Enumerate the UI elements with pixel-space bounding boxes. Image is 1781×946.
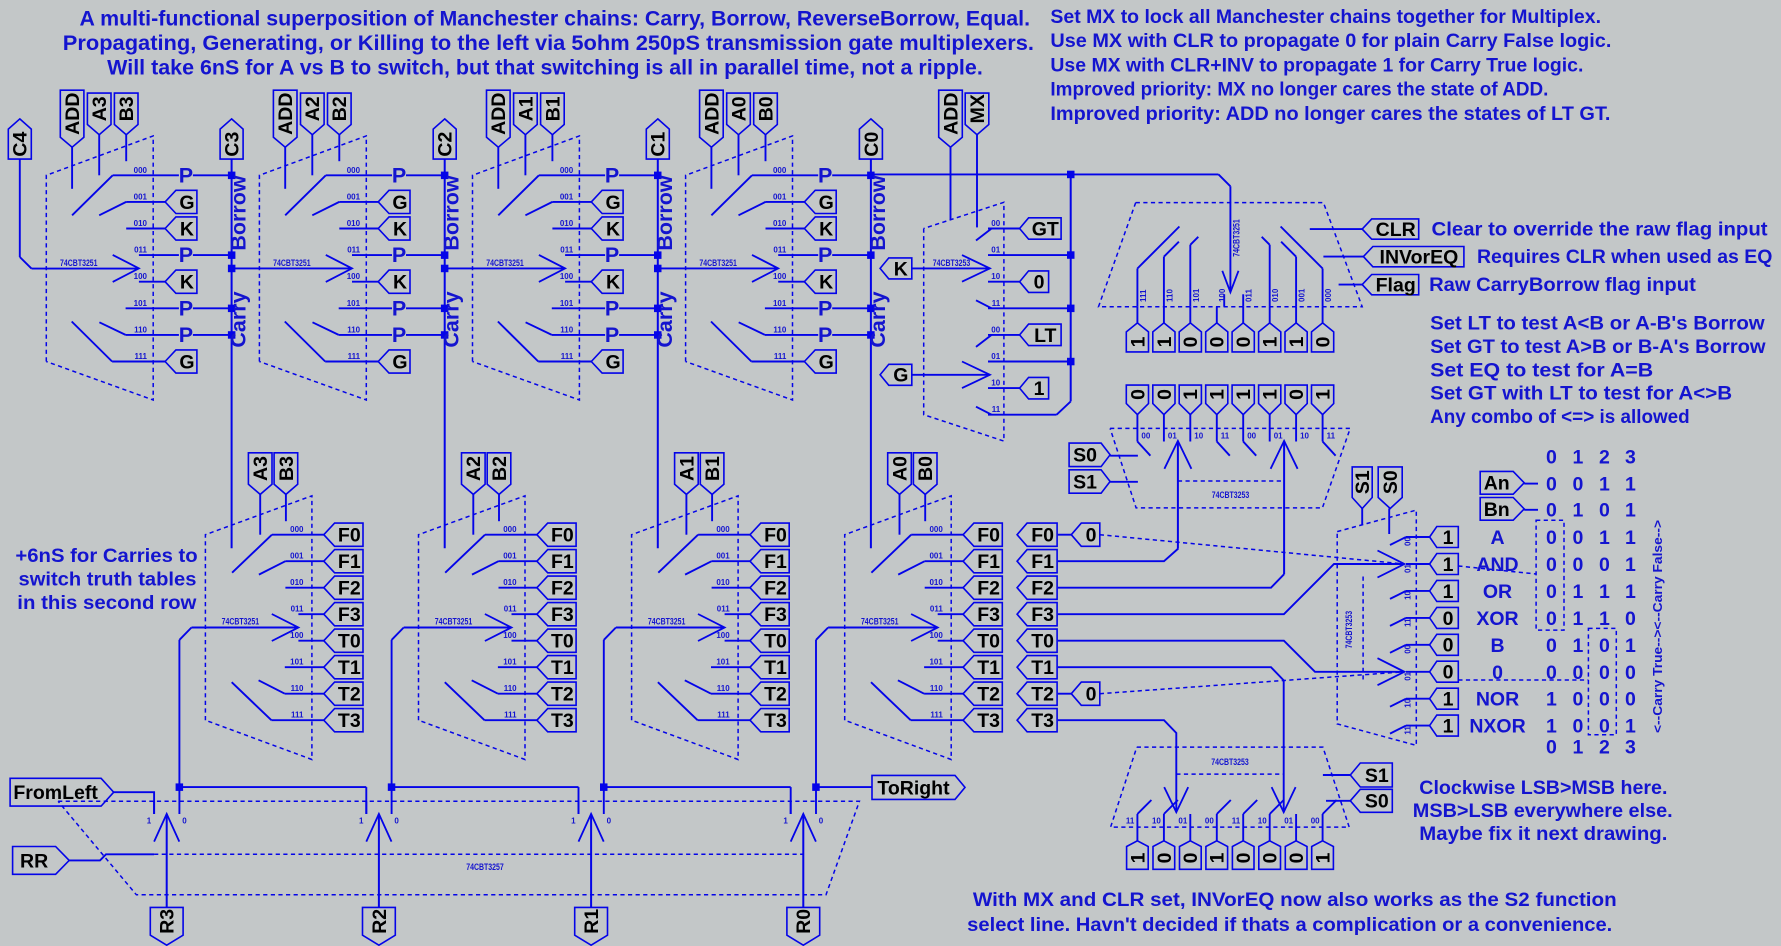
port T0: [324, 629, 363, 652]
node P knockout: [605, 300, 619, 317]
svg-text:F3: F3: [977, 604, 1000, 626]
port T3: [537, 709, 576, 732]
svg-text:select line. Havn't decided if: select line. Havn't decided if thats a c…: [967, 914, 1612, 936]
svg-text:1: 1: [1546, 689, 1557, 711]
port S1 br: [1350, 763, 1392, 787]
svg-text:Set EQ to test for A=B: Set EQ to test for A=B: [1430, 359, 1653, 381]
wire channel 011: [938, 613, 963, 615]
wire channel 10 stub: [1269, 814, 1271, 841]
svg-text:74CBT3253: 74CBT3253: [1212, 490, 1250, 500]
svg-text:0: 0: [1546, 474, 1557, 496]
svg-text:1: 1: [147, 817, 152, 826]
junction bus 1: [388, 783, 396, 791]
node P knockout: [179, 167, 193, 184]
wire B1 select: [551, 135, 553, 162]
svg-text:110: 110: [560, 325, 573, 334]
wire select riser: [603, 640, 605, 787]
blade ch001: [99, 202, 126, 215]
svg-text:With MX and CLR set, INVorEQ n: With MX and CLR set, INVorEQ now also wo…: [973, 889, 1617, 911]
junction bus 3: [812, 783, 820, 791]
wire select from bus: [445, 267, 565, 269]
svg-text:A0: A0: [728, 96, 750, 121]
svg-text:100: 100: [347, 272, 361, 281]
svg-text:F2: F2: [764, 578, 787, 600]
svg-text:K: K: [819, 272, 833, 294]
wire A3 select: [259, 494, 261, 534]
mux U6 74CBT3251 body: [1099, 203, 1363, 307]
svg-text:100: 100: [1218, 288, 1227, 302]
blade ch11b: [976, 407, 992, 415]
wire channel 010: [126, 228, 165, 230]
svg-text:0: 0: [1154, 852, 1176, 863]
node P knockout: [392, 326, 406, 343]
svg-text:K: K: [606, 272, 620, 294]
wire channel 110: [924, 693, 963, 695]
svg-text:0: 0: [1180, 336, 1202, 347]
wire C0 row000 extension: [871, 173, 1219, 175]
svg-text:switch truth tables: switch truth tables: [19, 569, 197, 591]
port T2 feed: [1017, 682, 1057, 705]
port G channel 001: [378, 190, 410, 213]
wire F3 run: [1058, 564, 1405, 614]
wire B2 select: [498, 494, 500, 521]
port G feed: [880, 364, 912, 385]
wire channel 100: [352, 281, 378, 283]
svg-text:Set GT with LT to test for A<>: Set GT with LT to test for A<>B: [1430, 383, 1732, 405]
wire to flag 0: [1242, 307, 1244, 323]
svg-text:101: 101: [290, 658, 304, 667]
wire to flag 1: [1163, 307, 1165, 323]
node P knockout: [179, 247, 193, 264]
wire channel 001: [126, 201, 165, 203]
wire RR select dashed: [154, 853, 803, 855]
svg-text:F2: F2: [551, 578, 574, 600]
svg-text:S0: S0: [1365, 791, 1389, 813]
svg-text:74CBT3251: 74CBT3251: [222, 616, 260, 626]
wire ch1 stub: [790, 801, 792, 814]
mux U11 74CBT3251 body: [845, 496, 952, 760]
blade ch111: [445, 682, 485, 720]
wire select riser: [391, 640, 393, 787]
svg-text:Improved priority: ADD no long: Improved priority: ADD no longer cares t…: [1050, 103, 1610, 125]
svg-text:Carry: Carry: [227, 291, 251, 347]
junction P 000: [441, 172, 449, 180]
wire channel 100: [565, 281, 591, 283]
svg-text:Will take 6nS for A vs B to sw: Will take 6nS for A vs B to switch, but …: [107, 57, 983, 80]
port S0 top: [1378, 467, 1402, 509]
wire row 10: [1406, 590, 1430, 592]
port A3 second row: [248, 453, 272, 495]
svg-text:101: 101: [716, 658, 730, 667]
blade row 11: [1390, 726, 1406, 734]
port A2 second row: [462, 453, 486, 495]
port out value 0: [1285, 841, 1307, 870]
wire C4 down: [19, 159, 21, 257]
svg-text:0: 0: [1572, 474, 1583, 496]
function select mux: [1337, 467, 1458, 746]
junction P 101: [441, 305, 449, 313]
svg-text:ToRight: ToRight: [877, 777, 950, 799]
port F3: [537, 603, 576, 626]
wire An: [1524, 483, 1538, 485]
svg-text:in this second row: in this second row: [17, 592, 197, 614]
mux U4 74CBT3251 body: [686, 136, 793, 400]
wire S1 br: [1323, 774, 1350, 776]
svg-text:0: 0: [1546, 554, 1557, 576]
select chevron: [113, 255, 139, 282]
svg-text:01: 01: [1168, 432, 1177, 441]
wire S0 select: [1388, 509, 1390, 535]
port flag value 1: [1126, 323, 1148, 352]
svg-text:110: 110: [773, 325, 786, 334]
wire channel 010: [552, 228, 591, 230]
svg-text:0: 0: [819, 817, 824, 826]
svg-text:0: 0: [1546, 608, 1557, 630]
junction P 011: [228, 251, 236, 259]
wire bus C3: [231, 159, 233, 548]
svg-text:111: 111: [504, 711, 517, 720]
bottom-right output mux: [1111, 747, 1673, 869]
svg-text:101: 101: [929, 658, 943, 667]
port K channel 010: [165, 217, 197, 240]
mux U13 74CBT3253 body: [1111, 747, 1350, 827]
wire R2 shaft: [378, 814, 380, 908]
node P knockout: [392, 300, 406, 317]
svg-text:T0: T0: [338, 631, 361, 653]
node P knockout: [179, 300, 193, 317]
port select value 1: [1179, 385, 1201, 415]
svg-text:P: P: [605, 243, 619, 267]
wire ch0 stub: [815, 787, 817, 814]
junction P 011: [867, 251, 875, 259]
wire common B shaft: [1283, 441, 1285, 574]
svg-text:FromLeft: FromLeft: [13, 782, 98, 804]
blade ch110: [685, 680, 711, 693]
port F1: [324, 550, 363, 573]
blade 00: [1323, 800, 1337, 814]
port T2: [324, 682, 363, 705]
port out value 0: [1232, 841, 1254, 870]
blade 10: [1270, 800, 1284, 814]
wire ch1 stub: [153, 801, 155, 814]
svg-text:1: 1: [1443, 581, 1454, 603]
wire value 1 down: [1242, 415, 1244, 442]
svg-text:010: 010: [560, 219, 574, 228]
svg-text:0: 0: [607, 817, 612, 826]
wire channel 100: [139, 281, 165, 283]
wire channel 111: [538, 361, 591, 363]
node P knockout: [392, 247, 406, 264]
port F1: [537, 550, 576, 573]
svg-text:000: 000: [716, 525, 730, 534]
svg-text:0: 0: [182, 817, 187, 826]
junction P 110: [228, 331, 236, 339]
wire bus drop: [365, 787, 367, 814]
svg-text:ADD: ADD: [701, 93, 723, 135]
wire bus segment: [604, 786, 791, 788]
svg-text:Propagating, Generating, or Ki: Propagating, Generating, or Killing to t…: [63, 32, 1034, 55]
wire F1 run: [1058, 549, 1178, 562]
svg-text:F0: F0: [338, 525, 361, 547]
wire select from bus: [232, 267, 352, 269]
select-value mux S0/S1: [1069, 385, 1350, 574]
port value 0: [1430, 607, 1459, 628]
svg-text:1: 1: [1625, 527, 1636, 549]
port S0 br: [1350, 789, 1392, 812]
svg-text:11: 11: [1232, 816, 1241, 825]
port flag value 0: [1232, 323, 1254, 352]
svg-text:110: 110: [291, 684, 304, 693]
svg-text:T2: T2: [977, 684, 1000, 706]
svg-text:F1: F1: [764, 551, 787, 573]
wire G to chevron: [912, 374, 990, 376]
svg-text:00: 00: [1247, 432, 1256, 441]
port R2: [363, 907, 396, 945]
svg-text:S0: S0: [1380, 470, 1402, 494]
svg-text:1: 1: [1233, 389, 1255, 400]
svg-text:74CBT3253: 74CBT3253: [933, 258, 971, 268]
svg-text:Bn: Bn: [1484, 499, 1510, 521]
cell 4 top row: [654, 90, 890, 548]
arrowhead R1: [579, 814, 604, 842]
port An: [1480, 471, 1524, 494]
blade ch000: [232, 535, 272, 573]
wire channel 10: [988, 387, 1020, 389]
svg-text:1: 1: [1207, 852, 1229, 863]
port ADD U5: [939, 90, 963, 147]
svg-text:0: 0: [1233, 336, 1255, 347]
wire B0 select: [765, 135, 767, 162]
svg-text:001: 001: [1298, 288, 1307, 302]
wire value 1 down: [1216, 415, 1218, 442]
mux U14 74CBT3257 body: [58, 801, 859, 895]
svg-text:T1: T1: [338, 657, 361, 679]
svg-text:000: 000: [1324, 288, 1333, 302]
junction P 101: [228, 305, 236, 313]
select chevron: [272, 614, 299, 641]
svg-text:T2: T2: [338, 684, 361, 706]
blade ch001: [525, 202, 552, 215]
wire select riser: [178, 640, 180, 787]
svg-text:100: 100: [560, 272, 574, 281]
svg-text:0: 0: [1546, 447, 1557, 469]
wire RR: [69, 854, 154, 860]
wire channel 101: [498, 666, 537, 668]
port 1: [1020, 377, 1049, 399]
wire channel 010 stub: [1269, 245, 1271, 307]
blade ch001: [259, 561, 286, 574]
port R3: [150, 907, 183, 945]
select chevron A: [962, 255, 990, 282]
mux U5 74CBT3253 body: [924, 202, 1004, 441]
port B0 second row: [913, 453, 937, 495]
wire ADD select: [497, 147, 499, 189]
junction P 000: [228, 172, 236, 180]
svg-text:0: 0: [1599, 500, 1610, 522]
svg-text:B2: B2: [489, 456, 511, 481]
node P knockout: [392, 167, 406, 184]
port K channel 100: [804, 270, 836, 293]
junction select tap: [228, 265, 236, 273]
top-right flag source mux: [871, 174, 1773, 352]
svg-text:0: 0: [1546, 500, 1557, 522]
blade 11: [1323, 442, 1336, 456]
port select value 1: [1206, 385, 1228, 415]
port ToRight: [872, 775, 965, 799]
blade ch00b: [976, 335, 992, 347]
wire ADD select: [710, 147, 712, 189]
svg-text:010: 010: [1271, 288, 1280, 302]
junction P 101: [654, 305, 662, 313]
svg-text:A0: A0: [889, 456, 911, 481]
wire GT/LT bus: [1070, 174, 1072, 401]
wire channel 110 to bus: [552, 334, 658, 336]
blade ch110: [99, 322, 125, 335]
blade 001: [1281, 242, 1296, 257]
svg-text:F3: F3: [764, 604, 787, 626]
port K channel 100: [378, 270, 410, 293]
svg-text:T2: T2: [764, 684, 787, 706]
svg-text:T2: T2: [551, 684, 574, 706]
wire F0 to 0: [1058, 534, 1071, 536]
junction P 011: [654, 251, 662, 259]
blade 00: [1243, 442, 1256, 456]
mux U8 74CBT3251 body: [205, 496, 312, 760]
svg-text:AND: AND: [1476, 554, 1518, 576]
svg-text:00: 00: [1141, 432, 1150, 441]
wire channel 01 to GT/LT bus: [988, 361, 1071, 363]
port flag value 1: [1153, 323, 1175, 352]
port select value 0: [1126, 385, 1148, 415]
port out value 0: [1180, 841, 1202, 870]
svg-text:C0: C0: [861, 131, 883, 156]
svg-text:XOR: XOR: [1476, 608, 1518, 630]
svg-text:101: 101: [560, 299, 574, 308]
svg-text:1: 1: [1154, 336, 1176, 347]
node P knockout: [818, 167, 832, 184]
svg-text:A1: A1: [515, 96, 537, 121]
port T1: [750, 656, 789, 679]
arrowhead R0: [791, 814, 816, 842]
port F1: [750, 550, 789, 573]
svg-text:1: 1: [1572, 581, 1583, 603]
wire T2 to 0: [1058, 693, 1071, 695]
wire to flag 0: [1189, 307, 1191, 323]
svg-text:1: 1: [1443, 527, 1454, 549]
svg-text:111: 111: [774, 352, 787, 361]
blade row 10: [1390, 699, 1406, 707]
svg-text:Carry: Carry: [866, 291, 890, 347]
wire ch1 stub: [578, 801, 580, 814]
wire B0 select: [924, 494, 926, 521]
svg-text:0: 0: [1443, 608, 1454, 630]
wire to flag 0: [1322, 307, 1324, 323]
svg-text:Borrow: Borrow: [866, 175, 890, 251]
svg-text:F1: F1: [977, 551, 1000, 573]
junction bus 2: [600, 783, 608, 791]
svg-text:T3: T3: [764, 710, 787, 732]
wire select jog: [816, 628, 828, 640]
wire channel 000: [485, 534, 537, 536]
port C0: [859, 119, 882, 159]
wire channel 111: [325, 361, 378, 363]
svg-text:F0: F0: [764, 525, 787, 547]
wire channel 111: [751, 361, 804, 363]
wire FromLeft: [114, 792, 154, 814]
blade ch110: [526, 322, 552, 335]
svg-text:0: 0: [1599, 689, 1610, 711]
wire channel 110: [285, 693, 324, 695]
port T3: [750, 709, 789, 732]
port value 1: [1430, 688, 1459, 709]
port select value 1: [1312, 385, 1334, 415]
port K channel 100: [591, 270, 623, 293]
port C3: [220, 119, 243, 159]
port flag value 0: [1179, 323, 1201, 352]
wire value 0 down: [1295, 415, 1297, 442]
svg-text:1: 1: [1034, 378, 1045, 400]
svg-text:G: G: [179, 351, 194, 373]
svg-text:1: 1: [1313, 389, 1335, 400]
svg-text:S0: S0: [1073, 445, 1097, 467]
svg-text:A2: A2: [463, 456, 485, 481]
wire bus to ToRight: [816, 786, 872, 788]
wire R0 shaft: [802, 814, 804, 908]
svg-text:<--Carry True--><--Carry False: <--Carry True--><--Carry False-->: [1650, 520, 1665, 733]
port out value 0: [1259, 841, 1281, 870]
wire channel 10: [988, 281, 1020, 283]
svg-text:1: 1: [1625, 474, 1636, 496]
svg-text:S1: S1: [1365, 765, 1389, 787]
svg-text:T0: T0: [551, 631, 574, 653]
svg-text:000: 000: [929, 525, 943, 534]
svg-text:1: 1: [1443, 554, 1454, 576]
wire bus C2: [444, 159, 446, 548]
port T0: [750, 629, 789, 652]
wire channel 100: [778, 281, 804, 283]
svg-text:P: P: [179, 296, 193, 320]
svg-text:G: G: [179, 192, 194, 214]
svg-text:74CBT3253: 74CBT3253: [1211, 757, 1249, 767]
blade 000: [1281, 227, 1323, 269]
wire channel 011 to bus: [352, 254, 445, 256]
svg-text:110: 110: [717, 684, 730, 693]
wire select horiz: [828, 627, 938, 629]
svg-text:B3: B3: [116, 96, 138, 121]
port select value 1: [1232, 385, 1254, 415]
svg-text:3: 3: [1625, 737, 1636, 759]
port value 0: [1430, 661, 1459, 682]
svg-text:1: 1: [1625, 716, 1636, 738]
svg-text:1: 1: [783, 817, 788, 826]
port A1: [514, 93, 538, 135]
svg-text:01: 01: [1274, 432, 1283, 441]
wire channel 100 stub: [1223, 294, 1225, 306]
svg-text:0: 0: [1034, 272, 1045, 294]
svg-text:0: 0: [1572, 527, 1583, 549]
svg-text:11: 11: [1221, 432, 1230, 441]
svg-text:C4: C4: [10, 131, 32, 156]
svg-text:11: 11: [1327, 432, 1336, 441]
svg-text:010: 010: [290, 578, 304, 587]
svg-text:011: 011: [560, 246, 573, 255]
mux U9 74CBT3251 body: [419, 496, 526, 760]
wire channel 011: [725, 613, 750, 615]
wire INVorEQ: [1323, 256, 1363, 258]
blade ch000: [658, 535, 698, 573]
svg-text:MSB>LSB everywhere else.: MSB>LSB everywhere else.: [1413, 800, 1673, 822]
select chevron: [911, 614, 938, 641]
